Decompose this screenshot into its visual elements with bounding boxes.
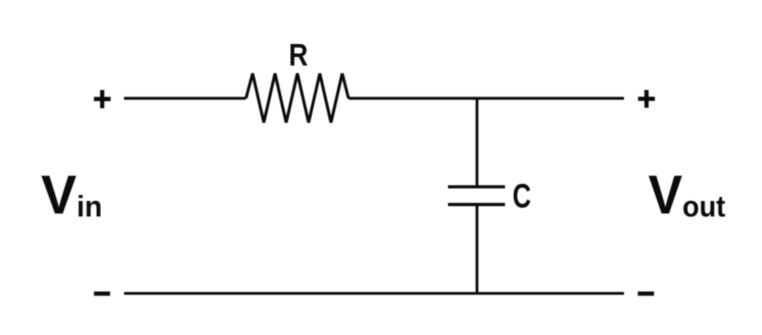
svg-text:C: C	[513, 178, 532, 215]
wire top-left segment	[124, 97, 246, 100]
resistor R	[246, 74, 349, 123]
capacitor C top plate	[448, 185, 505, 188]
plus sign left	[94, 90, 111, 108]
wire from top-rail junction node down to capacitor	[476, 98, 479, 187]
svg-text:Vout: Vout	[648, 165, 726, 226]
wire capacitor to bottom	[476, 205, 479, 294]
svg-text:Vin: Vin	[41, 165, 102, 226]
wire top-right segment	[349, 97, 625, 100]
minus sign left	[94, 292, 110, 296]
wire bottom rail	[124, 292, 624, 295]
capacitor C bottom plate	[448, 203, 505, 206]
plus sign right	[638, 90, 655, 108]
svg-text:R: R	[289, 39, 308, 73]
minus sign right	[638, 292, 654, 296]
